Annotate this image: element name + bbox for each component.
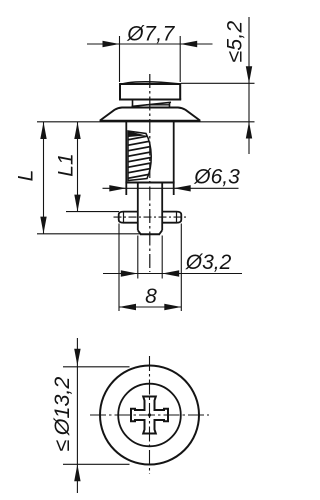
dimension ≤Ø13,2 arrow bottom xyxy=(74,464,80,481)
spring coil between knob and cone: left vertical xyxy=(132,100,134,107)
shaft tip bottom edge xyxy=(140,233,160,235)
shaft tip chamfer left xyxy=(138,230,141,234)
dimension Ø7,7 extension line left xyxy=(119,36,121,82)
extension line shaft left xyxy=(137,236,139,279)
cross-pin left xyxy=(119,212,138,223)
dimension L arrow bottom xyxy=(40,217,46,234)
extension line circle top xyxy=(63,366,130,368)
knob crown arc xyxy=(121,82,180,85)
svg-text:≤ Ø13,2: ≤ Ø13,2 xyxy=(50,377,74,452)
dimension 8 arrow left xyxy=(119,304,136,310)
svg-text:Ø7,7: Ø7,7 xyxy=(126,23,175,46)
dimension Ø7,7 arrow left xyxy=(103,41,120,47)
spring S (hatched section) xyxy=(124,135,156,185)
svg-text:≤5,2: ≤5,2 xyxy=(224,21,247,63)
bushing right wall xyxy=(173,121,175,195)
dimension Ø7,7 extension line right xyxy=(179,36,181,82)
extension line pin right end xyxy=(180,224,182,312)
svg-text:L1: L1 xyxy=(55,153,78,176)
shaft right wall xyxy=(161,183,163,231)
dimension ≤Ø13,2 line xyxy=(76,338,78,493)
cross-pin right xyxy=(162,212,181,223)
extension line knob top to ≤5,2 xyxy=(181,82,255,84)
extension line shaft right xyxy=(161,236,163,279)
phillips cross recess xyxy=(131,397,168,434)
spring top coil wedge xyxy=(128,131,146,137)
dimension Ø3,2 arrow right xyxy=(162,270,179,276)
knob bottom edge xyxy=(119,99,181,101)
dimension L1 arrow top xyxy=(74,122,80,139)
dimension Ø6,3 arrow right xyxy=(174,185,191,191)
bottom view centerline vertical xyxy=(149,356,151,474)
dimension Ø6,3 line xyxy=(103,187,239,189)
dimension L1 arrow bottom xyxy=(74,195,80,212)
cross-pin right chamfer line xyxy=(176,212,178,222)
shaft left wall xyxy=(137,183,139,231)
svg-text:8: 8 xyxy=(145,285,157,308)
knob K (head cylinder) xyxy=(120,84,180,100)
bushing left wall xyxy=(125,121,127,195)
dimension L arrow top xyxy=(40,122,46,139)
under-head datum extension line xyxy=(37,121,255,123)
spring coil seat line xyxy=(146,104,170,106)
spring outline xyxy=(128,131,151,181)
bottom view centerline horizontal xyxy=(90,414,209,416)
bushing bottom edge xyxy=(125,182,174,184)
spring coil diagonal xyxy=(132,102,172,106)
phillips center dot xyxy=(148,413,151,416)
dimension L line xyxy=(43,122,45,234)
dimension 8 line xyxy=(119,306,181,308)
extension line L1 to pin top xyxy=(66,211,119,213)
extension line circle bottom xyxy=(63,463,130,465)
outer circle xyxy=(100,366,199,465)
cross-pin centerline xyxy=(114,216,187,218)
dimension Ø7,7 line xyxy=(87,43,213,45)
dimension 8 arrow right xyxy=(164,304,181,310)
svg-text:L: L xyxy=(15,170,38,182)
dimension ≤5,2 arrow bottom xyxy=(246,122,252,139)
dimension ≤5,2 arrow top xyxy=(246,66,252,83)
dimension ≤Ø13,2 arrow top xyxy=(74,349,80,366)
dimension Ø3,2 arrow left xyxy=(121,270,138,276)
cone head (countersunk flange) xyxy=(100,108,200,121)
dimension Ø7,7 arrow right xyxy=(180,41,197,47)
extension line pin left end xyxy=(118,224,120,312)
shaft tip chamfer right xyxy=(159,230,162,234)
inner circle xyxy=(118,384,181,447)
svg-text:Ø3,2: Ø3,2 xyxy=(185,251,232,274)
dimension ≤5,2 line xyxy=(248,17,250,154)
cone base edge xyxy=(100,120,201,122)
dimension L1 line xyxy=(77,122,79,212)
dimension Ø6,3 arrow left xyxy=(109,185,126,191)
extension line L to tip bottom xyxy=(37,233,140,235)
spring coil right vertical xyxy=(169,102,171,107)
cross-pin left chamfer line xyxy=(123,212,125,222)
svg-text:Ø6,3: Ø6,3 xyxy=(193,166,240,189)
dimension Ø3,2 line xyxy=(103,273,242,275)
centerline vertical (side view) xyxy=(149,74,151,272)
